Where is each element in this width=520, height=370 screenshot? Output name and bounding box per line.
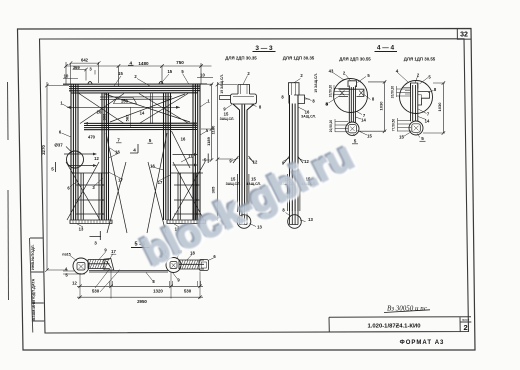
elevation text labels: [41, 58, 211, 246]
svg-text:ДЛЯ 1ДП 30.35: ДЛЯ 1ДП 30.35: [283, 56, 315, 61]
left vertical dim 3270: [45, 82, 69, 272]
post B bracket: [294, 95, 305, 104]
heading underline 4-4: [375, 51, 398, 53]
outer border frame: [18, 29, 476, 351]
svg-text:10: 10: [64, 73, 69, 78]
svg-text:Ø37: Ø37: [54, 143, 63, 148]
connecting tie rod: [89, 270, 168, 272]
svg-text:20,50,20: 20,50,20: [391, 86, 395, 99]
left sub dims: [63, 61, 101, 84]
left bolt circle: [73, 258, 89, 274]
left column: [71, 84, 78, 220]
detail B right bracket: [418, 92, 430, 105]
detail A web: [349, 86, 355, 123]
svg-text:11: 11: [188, 154, 193, 159]
svg-text:ДЛЯ 1ДП 30.55: ДЛЯ 1ДП 30.55: [404, 57, 436, 62]
svg-text:13: 13: [79, 227, 84, 232]
sheet number box 32: [457, 29, 471, 40]
inner border frame: [40, 39, 469, 333]
post A lower sleeve: [238, 174, 249, 212]
svg-text:пв15: пв15: [62, 253, 70, 257]
SECTION 3-3: [216, 52, 312, 229]
svg-text:583: 583: [125, 114, 130, 121]
scan edge marks: [8, 82, 9, 300]
svg-text:17: 17: [158, 180, 163, 185]
svg-text:750: 750: [176, 60, 184, 65]
section mark 4 mid: [130, 144, 138, 153]
svg-text:3270: 3270: [41, 145, 46, 155]
svg-text:4: 4: [396, 69, 399, 74]
svg-text:4: 4: [133, 148, 136, 153]
svg-text:15: 15: [399, 135, 404, 140]
svg-text:300: 300: [101, 113, 106, 120]
detail B leaders: [398, 73, 434, 138]
node arrows: [64, 154, 194, 166]
svg-text:530: 530: [92, 288, 100, 293]
heading underline 3-3: [253, 51, 276, 53]
right column: [193, 84, 200, 220]
detail A top stub: [348, 81, 357, 87]
svg-text:ЛИСТ: ЛИСТ: [462, 318, 470, 322]
detail B bottom circle: [409, 121, 423, 135]
svg-text:32: 32: [460, 32, 468, 39]
detail A flange bar: [339, 89, 364, 96]
right bar: [179, 260, 204, 269]
post B leaders: [284, 79, 312, 222]
lower diagonal braces: [66, 131, 205, 233]
svg-text:ЗАЩ.СЛ.: ЗАЩ.СЛ.: [301, 115, 316, 119]
svg-text:1180: 1180: [211, 125, 216, 134]
section 3-3 labels: [211, 45, 329, 230]
post A shaft: [233, 104, 254, 212]
svg-text:7: 7: [117, 138, 120, 143]
svg-text:15: 15: [367, 134, 372, 139]
svg-text:5: 5: [354, 139, 357, 144]
detail A right dim: [359, 80, 386, 133]
section mark 3 bottom: [90, 231, 102, 240]
svg-text:1480: 1480: [138, 61, 149, 66]
detail B right dim: [423, 81, 445, 135]
post A bottom circle: [237, 215, 251, 229]
view 5-5 labels: [62, 242, 216, 305]
detail A bottom circle: [346, 122, 359, 135]
detail B big circle: [400, 81, 433, 114]
label underlines: [116, 142, 153, 144]
post B lower sleeve: [288, 174, 300, 211]
top panel diagonal braces: [79, 94, 190, 124]
svg-text:3: 3: [94, 241, 97, 246]
svg-text:1.020-1/87Ƶ4.1-КИ0: 1.020-1/87Ƶ4.1-КИ0: [367, 323, 421, 329]
leg arrows left: [76, 185, 196, 214]
svg-text:5: 5: [421, 136, 424, 141]
detail B web: [411, 83, 418, 121]
svg-text:13: 13: [308, 217, 313, 222]
VIEW 5-5: [63, 248, 214, 300]
right bolt circle: [166, 258, 181, 273]
svg-text:ИНВ.№ПОДЛ.: ИНВ.№ПОДЛ.: [31, 244, 35, 270]
svg-text:369: 369: [73, 65, 81, 70]
left bar: [88, 260, 110, 269]
svg-text:16: 16: [181, 137, 186, 142]
svg-text:12: 12: [94, 156, 99, 161]
svg-text:1030: 1030: [378, 101, 383, 111]
secondary chord lines: [100, 97, 172, 100]
detail A big circle: [334, 79, 368, 113]
svg-text:12: 12: [72, 281, 77, 286]
svg-text:530: 530: [184, 288, 192, 293]
svg-text:2950: 2950: [137, 299, 147, 304]
SECTION 4-4: [329, 52, 446, 138]
top beam band: [63, 84, 207, 93]
svg-text:10: 10: [200, 72, 205, 77]
base plates: [70, 220, 206, 224]
left gusset plate: [104, 258, 114, 270]
svg-text:5: 5: [149, 138, 152, 143]
post A head: top stub: [238, 85, 250, 95]
right inner post: [164, 93, 171, 220]
right vertical dim 1189: [200, 82, 213, 161]
svg-text:16: 16: [115, 150, 120, 155]
svg-text:16: 16: [150, 164, 155, 169]
svg-text:15: 15: [167, 69, 172, 74]
svg-text:43: 43: [329, 69, 334, 74]
post A head: wide body: [231, 94, 257, 104]
left inner post: [102, 93, 109, 220]
MAIN ELEVATION VIEW: [45, 61, 213, 271]
svg-text:ДЛЯ 2ДП 30.35: ДЛЯ 2ДП 30.35: [225, 56, 257, 61]
svg-text:1030: 1030: [437, 102, 442, 112]
svg-text:305: 305: [211, 186, 216, 193]
svg-text:20,50,20: 20,50,20: [329, 85, 333, 98]
svg-text:ДЛЯ 2ДП 30.55: ДЛЯ 2ДП 30.55: [339, 57, 371, 62]
svg-text:2: 2: [464, 323, 468, 332]
left margin stamp strip: [30, 238, 45, 333]
svg-text:77,50,50: 77,50,50: [392, 119, 396, 132]
svg-text:642: 642: [81, 58, 89, 63]
svg-text:3 — 3: 3 — 3: [255, 45, 273, 52]
post B shaft: [290, 95, 299, 211]
dim line 2: [77, 295, 203, 299]
svg-text:12: 12: [253, 160, 258, 165]
extension lines: [63, 269, 201, 299]
svg-text:15 ЗАЩ.СЛ.: 15 ЗАЩ.СЛ.: [220, 74, 224, 93]
post A leaders: [226, 76, 257, 227]
svg-text:1189: 1189: [206, 136, 211, 145]
svg-text:17: 17: [111, 249, 116, 254]
svg-text:ЗАЩ.СЛ.: ЗАЩ.СЛ.: [220, 117, 235, 121]
svg-text:15: 15: [118, 71, 123, 76]
svg-text:4: 4: [130, 61, 133, 66]
svg-text:15: 15: [224, 112, 229, 117]
section 4-4 labels: [325, 45, 442, 144]
svg-text:14: 14: [140, 111, 145, 116]
svg-text:17: 17: [118, 178, 123, 183]
heading underline 5-5: [131, 247, 150, 249]
svg-text:4 — 4: 4 — 4: [377, 45, 395, 52]
post B top box: [289, 83, 300, 95]
svg-text:15: 15: [231, 177, 236, 182]
svg-text:14: 14: [425, 119, 430, 124]
svg-text:15 ЗАЩ.СЛ.: 15 ЗАЩ.СЛ.: [314, 73, 318, 92]
post B bottom circle: [288, 215, 302, 229]
lifting hooks on beam: [88, 82, 163, 84]
svg-text:5: 5: [204, 158, 207, 163]
right end box: [199, 260, 209, 271]
post A left bracket: [220, 96, 231, 100]
svg-text:20,50,20: 20,50,20: [329, 120, 333, 133]
svg-text:ПОДП.ДАТА: ПОДП.ДАТА: [32, 279, 36, 301]
dim line 1: [77, 285, 203, 289]
center hanger: [151, 93, 153, 124]
leg boxes: [72, 173, 203, 220]
top dimension line: [66, 62, 212, 86]
mid beam band: [84, 123, 197, 130]
detail B top stub: [411, 83, 418, 89]
leaders top labels: [62, 74, 208, 228]
detail B left flange marks: [402, 88, 411, 95]
svg-text:14: 14: [361, 118, 366, 123]
detail B left small dims: [397, 86, 412, 97]
section mark 5 left: [55, 162, 57, 172]
svg-text:ВЗАМ.ИНВ: ВЗАМ.ИНВ: [32, 300, 36, 321]
leaders: [70, 252, 214, 281]
svg-text:15б: 15б: [121, 99, 129, 104]
detail pennant 15b: [114, 98, 137, 104]
svg-text:1320: 1320: [153, 288, 163, 293]
svg-text:5: 5: [51, 167, 54, 172]
door-width dim line with arrows: [67, 106, 180, 108]
detail A left small dims: [334, 85, 349, 97]
title block: [329, 305, 471, 347]
post B base ticks: [284, 156, 303, 163]
node detail circle: [67, 151, 84, 168]
svg-text:ФОРМАТ А3: ФОРМАТ А3: [400, 340, 445, 346]
post A dim line: [216, 82, 237, 221]
svg-text:470: 470: [88, 135, 96, 140]
post A base ticks: [233, 156, 254, 163]
detail A leaders: [329, 72, 371, 136]
